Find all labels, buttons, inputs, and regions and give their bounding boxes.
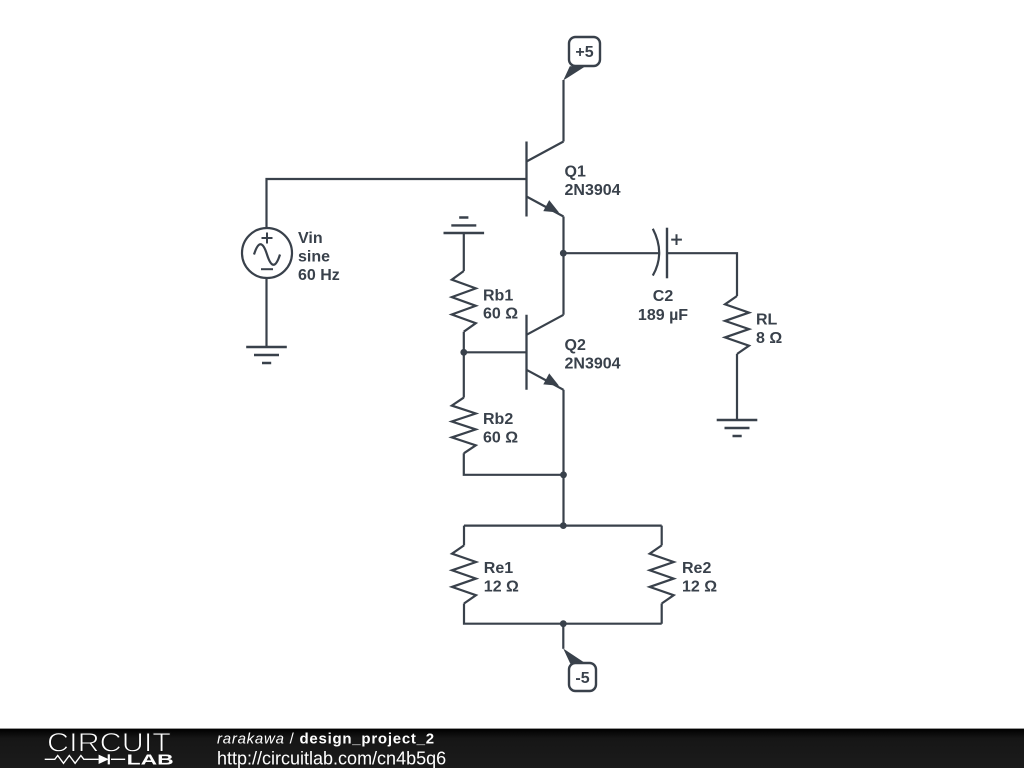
svg-text:RL: RL: [756, 311, 778, 328]
svg-text:189 µF: 189 µF: [638, 307, 688, 324]
svg-text:sine: sine: [298, 248, 330, 265]
svg-text:2N3904: 2N3904: [565, 182, 621, 199]
svg-text:2N3904: 2N3904: [565, 355, 621, 372]
svg-text:12 Ω: 12 Ω: [682, 579, 717, 596]
svg-text:12 Ω: 12 Ω: [484, 579, 519, 596]
svg-text:http://circuitlab.com/cn4b5q6: http://circuitlab.com/cn4b5q6: [217, 748, 446, 768]
svg-text:60 Ω: 60 Ω: [483, 430, 518, 447]
svg-text:Re1: Re1: [484, 560, 513, 577]
svg-text:Re2: Re2: [682, 560, 711, 577]
svg-text:Rb2: Rb2: [483, 411, 513, 428]
svg-text:-5: -5: [575, 670, 589, 687]
svg-text:+5: +5: [575, 44, 593, 61]
svg-text:LAB: LAB: [127, 753, 174, 768]
svg-text:60 Ω: 60 Ω: [483, 306, 518, 323]
svg-text:C2: C2: [653, 288, 674, 305]
svg-text:rarakawa / design_project_2: rarakawa / design_project_2: [217, 731, 435, 748]
svg-text:Vin: Vin: [298, 230, 323, 247]
svg-text:Q1: Q1: [565, 164, 586, 181]
svg-text:Rb1: Rb1: [483, 287, 513, 304]
svg-text:60 Hz: 60 Hz: [298, 267, 340, 284]
svg-text:Q2: Q2: [565, 337, 586, 354]
svg-text:8 Ω: 8 Ω: [756, 330, 782, 347]
